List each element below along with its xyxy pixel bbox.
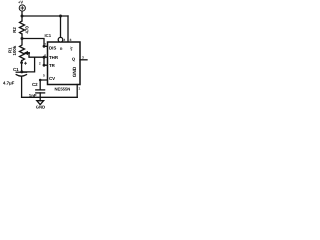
resistor R2 zigzag bbox=[20, 21, 25, 34]
junction dot reset branch bbox=[59, 15, 62, 18]
wire TR branch bbox=[44, 57, 48, 65]
GND pin drop bbox=[76, 85, 78, 98]
junction dot at +V rail bbox=[21, 15, 24, 18]
svg-text:4: 4 bbox=[64, 38, 66, 42]
reset pin bubble bbox=[58, 37, 63, 42]
wire THR branch down to C1 top bbox=[22, 57, 35, 72]
svg-text:GND: GND bbox=[36, 105, 45, 110]
wire THR into box bbox=[44, 56, 48, 58]
svg-text:470: 470 bbox=[25, 26, 30, 34]
wire +V pin drop bbox=[67, 16, 69, 42]
ground triangle bbox=[37, 101, 44, 105]
svg-text:TR: TR bbox=[49, 63, 56, 68]
svg-text:6: 6 bbox=[44, 54, 46, 58]
svg-text:DIS: DIS bbox=[49, 45, 56, 50]
wire R2 bottom to junction bbox=[21, 34, 23, 39]
svg-text:5: 5 bbox=[43, 74, 45, 78]
svg-text:3: 3 bbox=[82, 55, 84, 59]
wire C1 bottom to rail bbox=[21, 77, 23, 98]
capacitor C1 bottom curved plate bbox=[16, 75, 26, 77]
bend dot TR wire bbox=[43, 64, 46, 67]
+V supply symbol bbox=[19, 5, 25, 11]
svg-text:C2: C2 bbox=[32, 82, 38, 87]
wire junction to DIS horizontal bbox=[22, 39, 48, 47]
wire C2 bottom to rail bbox=[39, 93, 41, 97]
junction dot THR/TR bbox=[43, 56, 46, 59]
output Q stub bbox=[80, 59, 87, 61]
wire bottom rail bbox=[22, 96, 78, 98]
svg-text:2: 2 bbox=[39, 62, 41, 66]
capacitor C1 top plate bbox=[16, 71, 26, 73]
wire pot bottom to C1 bbox=[21, 61, 23, 73]
bend dot CV wire bbox=[39, 79, 42, 82]
junction dot R2/R1 bbox=[21, 37, 24, 40]
wire +V symbol down to rail bbox=[21, 11, 23, 21]
wire CV to C2 bbox=[40, 80, 47, 90]
wire reset drop bbox=[60, 16, 62, 37]
svg-text:+V: +V bbox=[18, 0, 23, 5]
junction dot C1 top bbox=[20, 70, 23, 73]
svg-text:R2: R2 bbox=[12, 27, 17, 33]
svg-text:1: 1 bbox=[79, 87, 81, 91]
svg-text:1nF: 1nF bbox=[29, 93, 37, 98]
wiper arrow head bbox=[24, 51, 28, 55]
bend dot DIS wire bbox=[43, 45, 46, 48]
svg-text:NE555N: NE555N bbox=[55, 87, 71, 92]
ground stub bbox=[39, 97, 41, 100]
svg-text:IC1: IC1 bbox=[45, 33, 52, 38]
svg-text:CV: CV bbox=[49, 76, 55, 81]
svg-text:GND: GND bbox=[72, 66, 77, 77]
bend dot wiper bbox=[28, 52, 30, 54]
svg-text:C1: C1 bbox=[13, 67, 19, 72]
dot pot bottom bbox=[20, 61, 23, 64]
svg-text:8: 8 bbox=[70, 38, 72, 42]
capacitor C2 bottom plate bbox=[36, 92, 45, 94]
svg-text:7: 7 bbox=[44, 43, 46, 47]
wire top rail bbox=[22, 15, 68, 17]
plus polarity C1 bbox=[24, 62, 27, 65]
svg-text:+V: +V bbox=[69, 46, 73, 51]
wire wiper to THR/TR bbox=[26, 53, 45, 57]
IC IC1 NE555N box bbox=[48, 42, 81, 85]
capacitor C2 top plate bbox=[36, 89, 45, 91]
svg-text:4.7µF: 4.7µF bbox=[3, 81, 15, 86]
svg-text:100k: 100k bbox=[12, 45, 17, 55]
potentiometer R1 zigzag bbox=[20, 39, 25, 61]
svg-text:THR: THR bbox=[49, 55, 59, 60]
